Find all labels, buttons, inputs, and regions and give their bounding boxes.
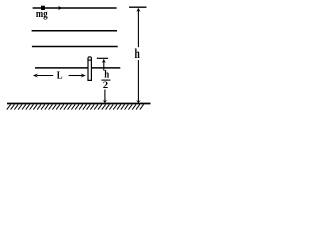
dimension h/2 lower line — [104, 90, 106, 103]
dimension h/2 down arrowhead — [103, 100, 107, 103]
ground hatching — [7, 104, 144, 109]
dimension L line right segment — [69, 75, 82, 77]
cap bar at top for h — [129, 6, 147, 8]
dimension h/2 upper line — [103, 60, 105, 71]
ground line — [7, 103, 151, 105]
dimension h upper line — [137, 9, 139, 48]
line level-1 (top shelf line) — [33, 7, 117, 9]
svg-text:h: h — [135, 46, 141, 61]
arrowhead velocity on top line — [58, 6, 62, 10]
dimension h lower line — [137, 60, 139, 102]
svg-text:2: 2 — [103, 80, 109, 91]
rod head crossbar — [87, 59, 92, 61]
cap bar at rod-top height for h/2 — [97, 57, 108, 59]
dimension L line left segment — [37, 75, 53, 77]
line level-3 — [32, 46, 118, 48]
dimension h/2 up arrowhead — [102, 59, 106, 63]
bead m on top line — [41, 6, 45, 10]
svg-text:L: L — [57, 70, 63, 82]
dimension L left arrowhead — [33, 74, 38, 78]
svg-text:h: h — [104, 70, 109, 81]
dimension L right arrowhead — [81, 74, 86, 78]
svg-text:mg: mg — [36, 8, 48, 20]
rod standing through level-4 — [88, 57, 91, 81]
line level-4 (shelf with rod) — [35, 67, 120, 69]
fraction bar of h/2 — [101, 79, 110, 81]
dimension h down arrowhead — [136, 100, 140, 103]
line level-2 — [32, 30, 117, 32]
dimension h up arrowhead — [136, 8, 140, 12]
